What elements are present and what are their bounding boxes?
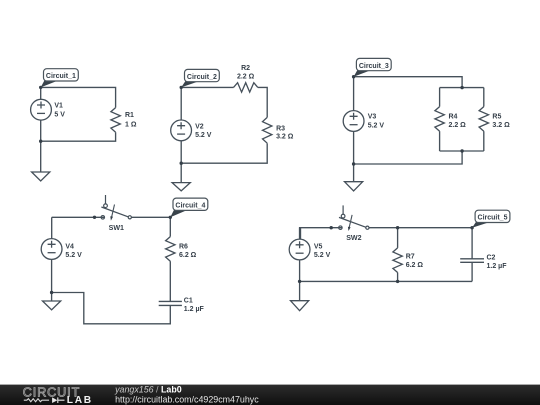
svg-text:Circuit_5: Circuit_5 <box>478 215 508 222</box>
svg-text:yangx156 / Lab0: yangx156 / Lab0 <box>114 384 182 394</box>
svg-text:5 V: 5 V <box>54 111 65 118</box>
svg-text:V2: V2 <box>195 123 204 130</box>
svg-text:SW1: SW1 <box>109 224 124 232</box>
svg-text:2.2 Ω: 2.2 Ω <box>449 122 467 129</box>
svg-text:Circuit_3: Circuit_3 <box>359 63 389 70</box>
svg-text:Circuit_2: Circuit_2 <box>187 74 217 81</box>
svg-text:1 Ω: 1 Ω <box>125 122 137 129</box>
svg-text:3.2 Ω: 3.2 Ω <box>492 122 510 129</box>
svg-text:5.2 V: 5.2 V <box>368 122 385 129</box>
svg-text:V1: V1 <box>54 103 63 110</box>
svg-text:3.2 Ω: 3.2 Ω <box>276 134 294 141</box>
svg-text:C1: C1 <box>184 297 193 304</box>
svg-text:R3: R3 <box>276 125 285 132</box>
svg-text:6.2 Ω: 6.2 Ω <box>179 252 197 259</box>
svg-text:Circuit_4: Circuit_4 <box>175 203 205 210</box>
svg-text:SW2: SW2 <box>346 234 361 242</box>
svg-text:http://circuitlab.com/c4929cm4: http://circuitlab.com/c4929cm47uhyc <box>115 394 259 404</box>
svg-text:LAB: LAB <box>67 395 93 405</box>
svg-text:R4: R4 <box>449 114 458 121</box>
svg-text:R6: R6 <box>179 243 188 250</box>
svg-text:5.2 V: 5.2 V <box>195 132 212 139</box>
svg-text:R2: R2 <box>241 65 250 72</box>
svg-text:1.2 µF: 1.2 µF <box>487 263 508 270</box>
svg-text:Circuit_1: Circuit_1 <box>46 73 76 80</box>
svg-text:6.2 Ω: 6.2 Ω <box>406 262 424 269</box>
svg-text:V3: V3 <box>368 114 377 121</box>
svg-text:R5: R5 <box>492 114 501 121</box>
svg-text:2.2 Ω: 2.2 Ω <box>237 74 255 81</box>
svg-text:5.2 V: 5.2 V <box>314 252 331 259</box>
svg-text:1.2 µF: 1.2 µF <box>184 306 205 313</box>
svg-text:5.2 V: 5.2 V <box>65 252 82 259</box>
svg-text:V4: V4 <box>65 243 74 250</box>
svg-text:V5: V5 <box>314 243 323 250</box>
svg-text:R1: R1 <box>125 112 134 119</box>
svg-text:C2: C2 <box>487 254 496 261</box>
svg-text:R7: R7 <box>406 253 415 260</box>
